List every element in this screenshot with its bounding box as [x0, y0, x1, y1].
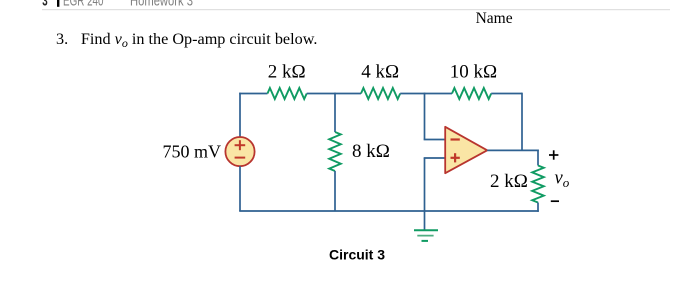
"Name" blank label: [476, 10, 513, 27]
value label 8 kOhm: [352, 141, 390, 162]
svg-text:Name: Name: [476, 10, 513, 27]
wire: left rail from top rail down to source + terminal: [239, 93, 241, 138]
header text "EGR 240": [63, 0, 104, 10]
svg-text:Find vo in the Op-amp circuit: Find vo in the Op-amp circuit below.: [81, 30, 317, 50]
resistor 10k zigzag: [452, 88, 491, 99]
voltage source 750 mV (circle with plus/minus): [225, 137, 254, 166]
wire: top rail, source to 2k resistor: [239, 93, 267, 95]
wire: ground stem below bottom rail: [424, 211, 426, 230]
wire: top rail, 2k to 8k junction: [307, 93, 335, 95]
svg-text:8 kΩ: 8 kΩ: [352, 141, 390, 162]
output voltage label vo: [555, 169, 570, 191]
svg-text:3: 3: [42, 0, 47, 10]
node: junction of 2k, 4k and 8k: [334, 93, 336, 95]
output polarity plus sign: [549, 150, 558, 159]
resistor 2k (top left) zigzag: [268, 88, 307, 99]
value label 10 kOhm: [450, 62, 497, 83]
wire: 8k branch from top junction down to zigzag: [334, 94, 336, 133]
svg-text:Circuit 3: Circuit 3: [329, 247, 385, 263]
wire: horizontal into op-amp noninverting input: [424, 157, 446, 159]
value label 750 mV: [163, 142, 222, 162]
svg-text:4 kΩ: 4 kΩ: [361, 62, 399, 83]
resistor 4k zigzag: [361, 88, 400, 99]
value label 4 kOhm: [361, 62, 399, 83]
header page number "3": [42, 0, 47, 10]
value label 2 kOhm (load): [490, 171, 528, 192]
wire: 8k branch from zigzag down to bottom rail: [334, 171, 336, 211]
problem title "3. Find vo in the Op-amp circuit below.": [56, 30, 317, 50]
resistor 2k (load) vertical zigzag: [532, 166, 544, 203]
svg-text:2 kΩ: 2 kΩ: [268, 62, 306, 83]
svg-text:vo: vo: [555, 169, 570, 191]
wire: feedback drop from top rail to op-amp output node: [521, 93, 523, 151]
value label 2 kOhm (top left): [268, 62, 306, 83]
wire: top rail, 10k to feedback corner: [491, 93, 522, 95]
wire: top rail, junction to 10k: [425, 93, 453, 95]
node: junction of 4k, 10k and op-amp inverting input: [424, 93, 426, 95]
svg-text:10 kΩ: 10 kΩ: [450, 62, 497, 83]
wire: bottom rail (ground net): [239, 210, 539, 212]
header underline rule: [42, 9, 670, 10]
header text "Homework 3": [130, 0, 193, 10]
wire: load branch from output corner down to 2k zigzag: [537, 150, 539, 166]
wire: noninverting input drop to bottom rail: [424, 158, 426, 211]
wire: load branch from zigzag down to bottom rail: [537, 203, 539, 212]
svg-text:EGR 240: EGR 240: [63, 0, 104, 10]
svg-text:3.: 3.: [56, 30, 68, 48]
wire: horizontal into op-amp inverting input: [424, 139, 446, 141]
svg-text:2 kΩ: 2 kΩ: [490, 171, 528, 192]
resistor 8k vertical zigzag: [329, 132, 341, 171]
caption "Circuit 3": [329, 247, 385, 263]
op-amp U1 triangle with input polarity marks: [445, 127, 487, 173]
wire: drop from top junction to inverting input level: [424, 94, 426, 140]
header separator bar: [57, 0, 59, 7]
wire: left rail from source - terminal down to bottom rail: [239, 166, 241, 211]
svg-text:Homework 3: Homework 3: [130, 0, 193, 10]
wire: top rail, 4k to inverting-input junction: [400, 93, 424, 95]
wire: top rail, junction to 4k: [335, 93, 361, 95]
ground symbol: [414, 230, 438, 241]
wire: op-amp output to load corner: [487, 149, 539, 151]
output polarity minus sign: [551, 200, 559, 202]
svg-text:750 mV: 750 mV: [163, 142, 222, 162]
